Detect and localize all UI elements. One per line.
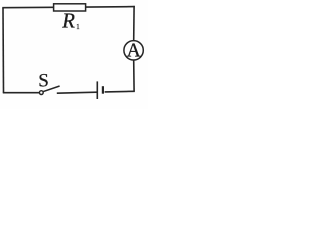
wire: left vertical (2, 8, 5, 93)
svg-text:R: R (61, 9, 75, 32)
wire: bottom-middle segment (switch to battery) (57, 92, 97, 93)
wire: right vertical upper (133, 6, 135, 41)
wire: right vertical lower (133, 60, 135, 91)
wire: bottom-left segment (corner to switch) (3, 92, 40, 94)
battery long plate (+) (96, 81, 98, 99)
resistor R1 (54, 4, 86, 11)
wire: top-left segment (2, 6, 54, 8)
svg-text:S: S (38, 70, 49, 91)
battery short plate (-) (102, 86, 104, 94)
switch S lever (43, 86, 60, 92)
wire: bottom-right segment (battery to corner) (105, 90, 135, 93)
wire: top-right segment (86, 6, 135, 9)
ammeter A (124, 41, 143, 60)
switch S pivot (39, 91, 43, 95)
svg-text:A: A (127, 41, 141, 62)
svg-text:1: 1 (76, 24, 79, 31)
